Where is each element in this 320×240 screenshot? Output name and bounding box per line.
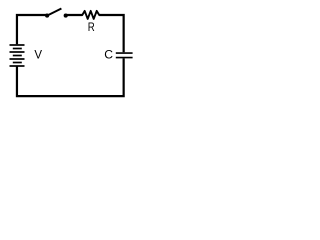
svg-text:R: R	[88, 22, 95, 34]
svg-text:C: C	[104, 47, 113, 61]
svg-text:V: V	[34, 49, 42, 61]
